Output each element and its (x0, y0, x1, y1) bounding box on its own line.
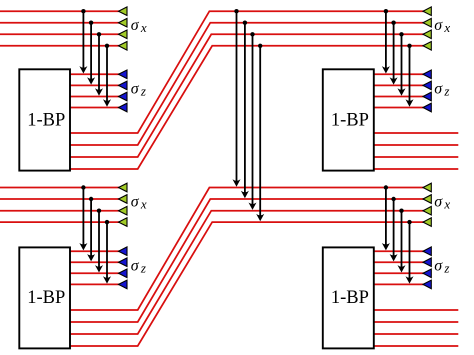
detector triangle (sigma-x, green) top-right line 1 (423, 7, 431, 16)
1-BP box U4 (bottom-right) (323, 247, 374, 348)
detector triangle (sigma-z, blue) bottom-left line 2 (119, 258, 128, 267)
wire: bottom-left input qubit line 3 (0, 210, 120, 212)
detector triangle (sigma-z, blue) bottom-right line 3 (423, 269, 431, 278)
wire: U3 output 2 routed up to bottom bus line 2 (69, 199, 424, 322)
detector triangle (sigma-x, green) bottom-left line 3 (119, 206, 128, 215)
wire: U3 output 1 routed up to bottom bus line 1 (69, 188, 424, 311)
detector triangle (sigma-z, blue) top-left line 2 (119, 81, 128, 90)
control dot and arrow: top-left line 1 to sigma-z line 1 (79, 9, 87, 74)
wire: bottom-right sigma-z line 2 (from U4 to detector) (373, 261, 424, 263)
detector triangle (sigma-z, blue) top-right line 3 (423, 92, 431, 101)
detector triangle (sigma-z, blue) bottom-left line 4 (119, 280, 128, 289)
wire: U4 output line 4 (373, 345, 459, 347)
control dot and arrow: bottom-right line 2 to sigma-z line 2 (390, 197, 398, 262)
detector triangle (sigma-x, green) top-right line 3 (423, 30, 431, 39)
wire: top-right sigma-z line 4 (from U2 to detector) (373, 107, 424, 109)
control dot and arrow: bottom-left line 4 to sigma-z line 4 (103, 220, 111, 284)
1-BP box U3 (bottom-left) (19, 247, 70, 348)
detector triangle (sigma-x, green) bottom-left line 1 (119, 183, 128, 192)
wire: bottom-left input qubit line 2 (0, 198, 120, 200)
wire: bottom-left sigma-z line 2 (from U3 to detector) (69, 261, 120, 263)
wire: U1 output 4 routed up to top bus line 4 (69, 46, 424, 169)
wire: bottom-right sigma-z line 1 (from U4 to detector) (373, 250, 424, 252)
detector triangle (sigma-z, blue) bottom-left line 3 (119, 269, 128, 278)
wire: top-left input qubit line 1 (0, 10, 120, 12)
wire: U2 output line 2 (373, 144, 459, 146)
detector triangle (sigma-x, green) top-left line 1 (119, 7, 128, 16)
detector triangle (sigma-z, blue) bottom-left line 1 (119, 247, 128, 256)
detector triangle (sigma-x, green) bottom-left line 2 (119, 195, 128, 204)
svg-text:σz: σz (131, 258, 146, 276)
svg-text:σx: σx (131, 193, 147, 211)
detector triangle (sigma-z, blue) top-left line 3 (119, 92, 128, 101)
detector triangle (sigma-x, green) top-left line 2 (119, 18, 128, 27)
wire: top-right sigma-z line 3 (from U2 to detector) (373, 96, 424, 98)
control dot and long arrow: top bus line 4 down to bottom bus line 4 (256, 44, 264, 222)
wire: U2 output line 1 (373, 132, 459, 134)
wire: top-left sigma-z line 4 (from U1 to detector) (69, 107, 120, 109)
control dot and long arrow: top bus line 2 down to bottom bus line 2 (241, 21, 249, 199)
svg-text:σx: σx (434, 17, 450, 35)
wire: top-left sigma-z line 1 (from U1 to detector) (69, 73, 120, 75)
detector triangle (sigma-z, blue) top-right line 2 (423, 81, 431, 90)
wire: U4 output line 2 (373, 321, 459, 323)
wire: top-left input qubit line 3 (0, 33, 120, 35)
detector triangle (sigma-z, blue) bottom-right line 4 (423, 280, 431, 289)
detector triangle (sigma-x, green) bottom-right line 2 (423, 195, 431, 204)
detector triangle (sigma-x, green) bottom-right line 1 (423, 183, 431, 192)
wire: bottom-left input qubit line 1 (0, 187, 120, 189)
wire: bottom-left sigma-z line 3 (from U3 to detector) (69, 272, 120, 274)
wire: bottom-right sigma-z line 4 (from U4 to detector) (373, 283, 424, 285)
control dot and arrow: top-left line 3 to sigma-z line 3 (95, 32, 103, 96)
detector triangle (sigma-x, green) top-right line 4 (423, 42, 431, 51)
wire: U4 output line 3 (373, 333, 459, 335)
wire: U2 output line 3 (373, 156, 459, 158)
wire: U3 output 4 routed up to bottom bus line 4 (69, 222, 424, 346)
wire: U3 output 3 routed up to bottom bus line 3 (69, 211, 424, 334)
svg-text:σz: σz (131, 81, 146, 99)
control dot and arrow: bottom-right line 1 to sigma-z line 1 (382, 185, 390, 250)
1-BP box U1 (top-left) (19, 69, 70, 170)
wire: bottom-left sigma-z line 1 (from U3 to detector) (69, 250, 120, 252)
detector triangle (sigma-z, blue) bottom-right line 1 (423, 247, 431, 256)
wire: U2 output line 4 (373, 168, 459, 170)
control dot and arrow: top-right line 3 to sigma-z line 3 (398, 32, 406, 96)
wire: top-right sigma-z line 2 (from U2 to detector) (373, 84, 424, 86)
wire: U1 output 1 routed up to top bus line 1 (69, 11, 424, 133)
detector triangle (sigma-z, blue) top-left line 4 (119, 103, 128, 112)
wire: top-left input qubit line 2 (0, 22, 120, 24)
svg-text:σx: σx (131, 17, 147, 35)
control dot and arrow: top-right line 2 to sigma-z line 2 (390, 21, 398, 85)
wire: top-left sigma-z line 2 (from U1 to detector) (69, 84, 120, 86)
control dot and arrow: top-right line 4 to sigma-z line 4 (406, 44, 414, 107)
control dot and arrow: top-left line 4 to sigma-z line 4 (103, 44, 111, 107)
wire: U4 output line 1 (373, 309, 459, 311)
1-BP box U2 (top-right) (323, 69, 374, 170)
control dot and long arrow: top bus line 1 down to bottom bus line 1 (233, 9, 241, 187)
wire: bottom-left sigma-z line 4 (from U3 to detector) (69, 283, 120, 285)
detector triangle (sigma-z, blue) top-right line 1 (423, 70, 431, 79)
wire: U1 output 2 routed up to top bus line 2 (69, 23, 424, 145)
detector triangle (sigma-x, green) top-right line 2 (423, 18, 431, 27)
wire: U1 output 3 routed up to top bus line 3 (69, 34, 424, 157)
control dot and arrow: bottom-right line 4 to sigma-z line 4 (406, 220, 414, 284)
wire: top-left sigma-z line 3 (from U1 to detector) (69, 96, 120, 98)
wire: bottom-right sigma-z line 3 (from U4 to detector) (373, 272, 424, 274)
detector triangle (sigma-x, green) top-left line 3 (119, 30, 128, 39)
wire: top-right sigma-z line 1 (from U2 to detector) (373, 73, 424, 75)
detector triangle (sigma-x, green) bottom-right line 4 (423, 218, 431, 227)
svg-text:1-BP: 1-BP (27, 111, 65, 131)
detector triangle (sigma-z, blue) top-right line 4 (423, 103, 431, 112)
svg-text:σz: σz (434, 258, 449, 276)
detector triangle (sigma-z, blue) bottom-right line 2 (423, 258, 431, 267)
detector triangle (sigma-x, green) bottom-right line 3 (423, 206, 431, 215)
detector triangle (sigma-x, green) bottom-left line 4 (119, 218, 128, 227)
control dot and arrow: bottom-left line 1 to sigma-z line 1 (79, 185, 87, 250)
svg-text:σz: σz (434, 81, 449, 99)
control dot and arrow: bottom-left line 2 to sigma-z line 2 (87, 197, 95, 262)
control dot and arrow: top-left line 2 to sigma-z line 2 (87, 21, 95, 85)
control dot and arrow: top-right line 1 to sigma-z line 1 (382, 9, 390, 74)
svg-text:σx: σx (434, 193, 450, 211)
detector triangle (sigma-x, green) top-left line 4 (119, 42, 128, 51)
svg-text:1-BP: 1-BP (331, 288, 369, 308)
control dot and long arrow: top bus line 3 down to bottom bus line 3 (249, 32, 257, 210)
svg-text:1-BP: 1-BP (331, 111, 369, 131)
wire: top-left input qubit line 4 (0, 45, 120, 47)
svg-text:1-BP: 1-BP (27, 288, 65, 308)
control dot and arrow: bottom-left line 3 to sigma-z line 3 (95, 209, 103, 273)
detector triangle (sigma-z, blue) top-left line 1 (119, 70, 128, 79)
wire: bottom-left input qubit line 4 (0, 221, 120, 223)
control dot and arrow: bottom-right line 3 to sigma-z line 3 (398, 209, 406, 273)
